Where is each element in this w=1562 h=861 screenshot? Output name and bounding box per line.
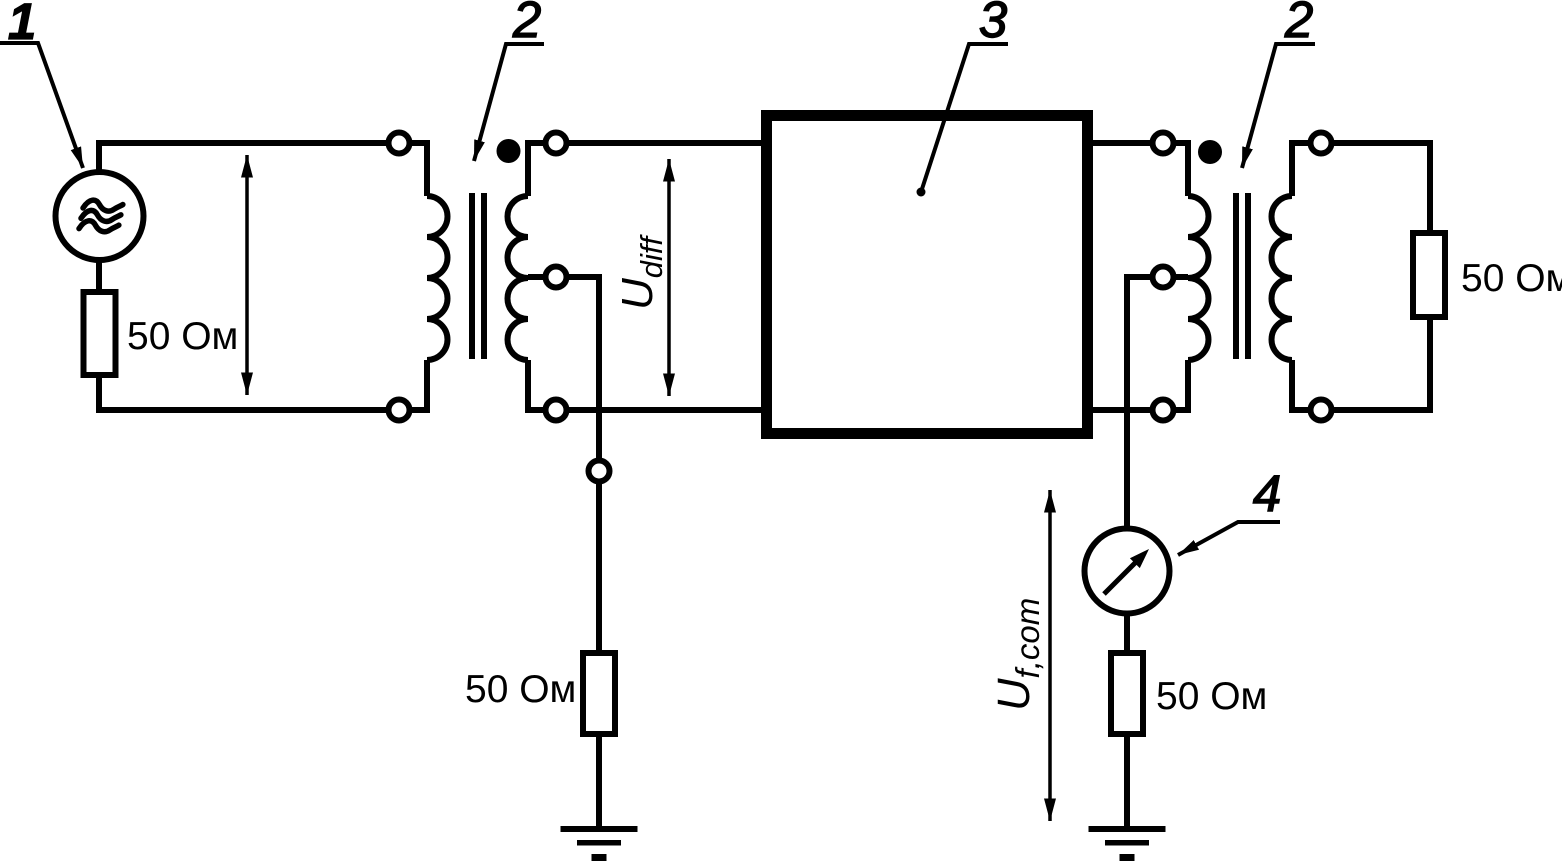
meter P1: [1085, 529, 1170, 614]
wire generator loop: [99, 143, 386, 410]
transformer T2 core: [1233, 193, 1239, 359]
wire T2 primary top connection: [1176, 143, 1188, 196]
generator G1 circle: [56, 172, 144, 260]
terminal T1 primary top: [389, 133, 410, 154]
leader 4: [1178, 522, 1280, 555]
transformer T1 primary coil: [427, 196, 447, 360]
terminal T1 center tap: [546, 267, 567, 288]
wire T1 secondary bottom to box: [569, 407, 761, 413]
polarity dot T2: [1198, 140, 1222, 164]
wire box to T2 bottom: [1093, 407, 1150, 413]
wire right load loop: [1334, 143, 1430, 410]
wire T1 primary top connection: [412, 143, 427, 196]
wire T2 primary bottom connection: [1176, 360, 1188, 410]
transformer T1 core: [469, 193, 475, 359]
transformer T2 secondary coil: [1272, 196, 1293, 360]
ground right: [1089, 826, 1166, 861]
terminal T1 secondary bottom: [546, 400, 567, 421]
wire generator vertical through source and resistor: [96, 143, 102, 410]
wire T1 secondary top connection: [528, 143, 543, 196]
svg-text:2: 2: [512, 0, 541, 48]
arrow U f,com: [1048, 490, 1052, 821]
svg-text:50 Ом: 50 Ом: [1461, 257, 1562, 300]
wire T1 secondary top to box: [569, 140, 761, 146]
wire T2 center tap stub: [1176, 274, 1188, 280]
svg-text:4: 4: [1253, 465, 1281, 522]
wire T1 center tap stub: [528, 274, 543, 280]
leader 1: [0, 43, 83, 168]
terminal T2 secondary top: [1311, 133, 1332, 154]
svg-text:50 Ом: 50 Ом: [465, 668, 576, 711]
transformer T1 secondary coil: [507, 196, 528, 360]
svg-text:50 Ом: 50 Ом: [127, 315, 238, 358]
wire box to T2 top: [1093, 140, 1150, 146]
svg-text:2: 2: [1284, 0, 1313, 48]
terminal T1 primary bottom: [389, 400, 410, 421]
resistor R3 50 Om bottom right: [1111, 653, 1143, 734]
wire T2 secondary top connection: [1292, 143, 1308, 196]
wire T1 tap drop to ground branch: [569, 277, 599, 826]
terminal T2 center tap: [1153, 267, 1174, 288]
resistor R1 50 Om: [84, 292, 116, 375]
generator waves: [79, 197, 123, 236]
terminal T2 primary top: [1153, 133, 1174, 154]
wire T1 primary bottom connection: [412, 360, 427, 410]
resistor R4 50 Om right: [1413, 233, 1445, 317]
box 3 device under test: [767, 116, 1088, 434]
terminal tap drop: [589, 461, 610, 482]
meter needle: [1104, 562, 1136, 594]
polarity dot T1: [497, 139, 521, 163]
terminal T2 secondary bottom: [1311, 400, 1332, 421]
terminal T2 primary bottom: [1153, 400, 1174, 421]
transformer T2 primary coil: [1188, 196, 1209, 360]
resistor R2 50 Om bottom left: [583, 653, 615, 734]
wire T1 secondary bottom connection: [528, 360, 543, 410]
ground left: [561, 826, 638, 861]
svg-text:3: 3: [979, 0, 1007, 48]
leader 2 second: [1242, 44, 1315, 168]
leader 3: [922, 44, 1008, 189]
terminal T1 secondary top: [546, 133, 567, 154]
svg-text:50 Ом: 50 Ом: [1156, 675, 1267, 718]
leader 2 first: [474, 44, 544, 161]
arrow source voltage: [245, 155, 249, 395]
arrow U diff: [667, 159, 671, 396]
wire T2 secondary bottom connection: [1292, 360, 1308, 410]
wire T2 tap drop to meter branch: [1127, 277, 1150, 826]
